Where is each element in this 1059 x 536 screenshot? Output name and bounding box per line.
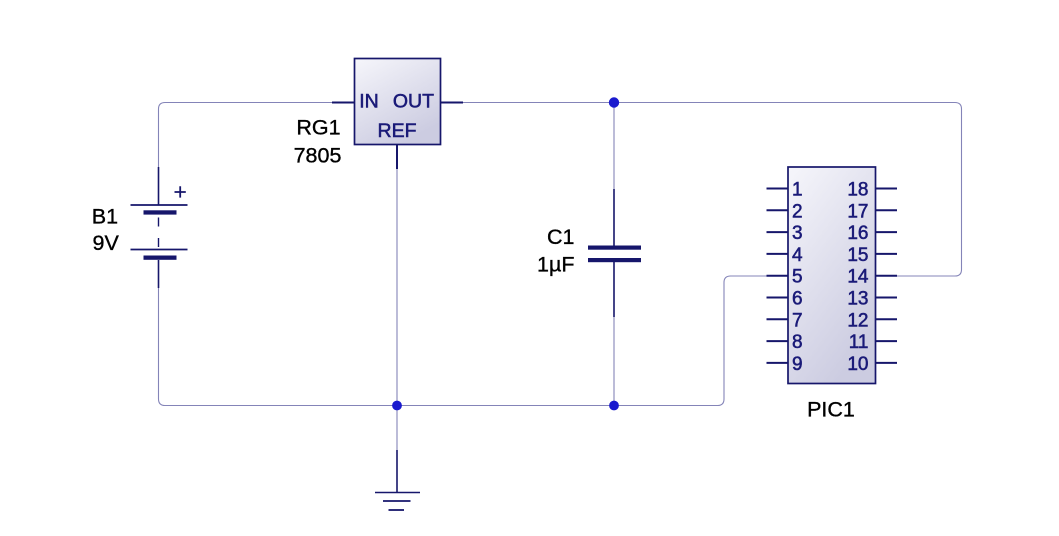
svg-text:16: 16 [847,223,868,244]
wire from battery + terminal up and right to RG1 IN [159,103,333,168]
PIC1 pin 10 [847,354,897,375]
node junction on bottom net at REF/ground [392,401,402,411]
RG1 OUT pin [441,102,464,104]
wire from RG1 REF down to bottom net [396,169,398,450]
svg-text:15: 15 [847,245,868,266]
svg-text:9V: 9V [93,231,120,255]
PIC1 pin 1 [767,180,803,201]
svg-text:C1: C1 [547,225,574,249]
svg-text:9: 9 [792,354,803,375]
PIC1 pin 18 [847,180,897,201]
PIC1 pin 7 [767,310,803,331]
svg-text:RG1: RG1 [296,116,340,140]
svg-text:7805: 7805 [294,143,342,167]
PIC1 pin 8 [767,332,803,353]
PIC1 pin 3 [767,223,803,244]
PIC1 pin 9 [767,354,803,375]
node junction on top net at C1 [609,97,619,107]
svg-text:PIC1: PIC1 [807,398,855,422]
internal dashed link [158,218,160,248]
PIC1 pin 16 [847,223,897,244]
svg-text:5: 5 [792,267,803,288]
svg-text:B1: B1 [92,205,118,229]
ground bar short [389,509,405,511]
cell 2 thick plate [144,256,177,260]
C1 top pin [613,189,615,246]
svg-text:7: 7 [792,310,803,331]
battery bottom pin [158,260,160,288]
RG1 REF pin [396,145,398,170]
svg-text:6: 6 [792,289,803,310]
PIC1 pin 14 [847,267,897,288]
battery top pin [158,167,160,205]
svg-text:14: 14 [847,267,869,288]
wire from capacitor C1 bottom down to bottom net [613,317,615,406]
svg-text:1: 1 [792,180,803,201]
RG1 body [355,59,441,145]
cell 1 thin plate [131,204,188,206]
svg-text:3: 3 [792,223,803,244]
wire from capacitor C1 top up to node on top net [613,103,615,190]
C1 top plate [588,246,641,250]
RG1 IN pin [332,102,355,104]
ground bar middle [383,500,411,502]
IC PIC1 body [788,167,876,384]
PIC1 pin 15 [847,245,897,266]
svg-text:2: 2 [792,201,803,222]
PIC1 pin 11 [849,332,897,353]
PIC1 pin 17 [847,201,897,222]
PIC1 pin 6 [767,289,803,310]
voltage regulator RG1 [332,59,463,170]
plus sign [175,186,186,197]
PIC1 pin 12 [847,310,897,331]
svg-text:12: 12 [847,310,868,331]
PIC1 pin 13 [847,289,897,310]
node junction on bottom net at C1 [609,401,619,411]
bottom net wire from battery - terminal down along bottom and up to PIC1 pin 5 [159,276,768,406]
svg-text:18: 18 [847,180,868,201]
svg-text:17: 17 [847,201,868,222]
svg-text:4: 4 [792,245,803,266]
svg-text:OUT: OUT [393,90,434,112]
svg-text:11: 11 [849,332,869,353]
capacitor C1 [588,189,641,317]
PIC1 pin 2 [767,201,803,222]
C1 bottom pin [613,262,615,317]
ground pin [396,450,398,492]
svg-text:1µF: 1µF [537,253,574,277]
svg-text:REF: REF [378,120,417,142]
svg-text:8: 8 [792,332,803,353]
battery B1 [131,167,188,288]
C1 bottom plate [588,258,641,262]
svg-text:10: 10 [847,354,868,375]
wire from RG1 OUT right through node to top-right corner down to PIC1 pin 14 [463,103,962,277]
ground [375,450,420,510]
cell 2 thin plate [131,249,188,251]
PIC1 pin 5 [767,267,803,288]
cell 1 thick plate [144,210,177,214]
PIC1 pin 4 [767,245,804,266]
svg-text:13: 13 [847,289,868,310]
svg-text:IN: IN [359,90,379,112]
ground bar long [375,492,420,494]
